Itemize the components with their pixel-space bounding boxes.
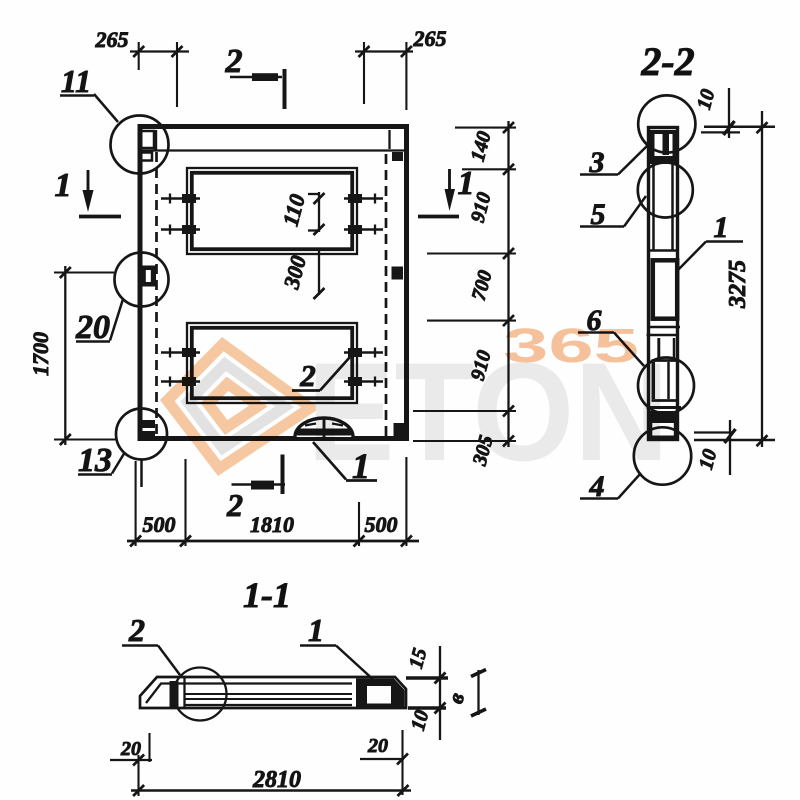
svg-text:15: 15 [405,646,431,671]
anchor loop lower-left-2 [161,377,200,387]
section 2-2 detail circle third [638,358,694,414]
svg-text:10: 10 [693,87,719,112]
watermark logo diamond ring inner orange [201,377,268,435]
section 2-2 top anchor [650,130,678,164]
svg-text:1: 1 [55,167,72,204]
section 1-1 right end block [356,679,405,710]
right chain extension lines [413,128,516,441]
bottom label 500 right [365,512,398,537]
section 2-2 detail circle bottom [634,427,691,484]
svg-text:110: 110 [278,191,310,228]
vent dome on bottom edge [295,418,353,437]
bottom label 1810 [250,512,294,537]
detail circle 11 (top-left corner) [111,116,169,174]
section 1-1 web lines [184,684,352,706]
dimension 20 right (1-1) [360,730,408,795]
svg-text:2: 2 [226,487,243,523]
bottom label 500 left [143,512,176,537]
dimension 10 top (2-2) [693,87,775,138]
dimension 15 (1-1) [405,646,448,740]
dashed line left [155,152,158,436]
dimension 1700 [28,266,116,445]
right chain label 910 upper [467,190,496,225]
panel outline [140,127,407,439]
anchor loop upper-left-1 [161,194,200,204]
svg-text:700: 700 [468,268,497,303]
section marker 1 left [55,167,122,217]
leader label 2 (plan) [292,357,350,393]
section marker 1 right [418,165,475,217]
section 2-2 mid dividers [647,327,681,361]
section 2-2 detail circle top [638,95,695,152]
label 4 [580,470,641,503]
label 1 (section 2-2) [676,211,743,272]
dimension b overall (1-1) [442,670,486,717]
svg-text:2: 2 [225,43,243,80]
anchor loop upper-right-1 [344,194,383,204]
dimension 2810 [131,755,411,796]
svg-text:1700: 1700 [28,332,53,376]
dimension 265 right [355,26,447,110]
dimension 20 left (1-1) [110,733,152,766]
top flange inner line [143,149,405,151]
svg-text:1810: 1810 [250,512,294,537]
section 2-2 lower web lines [647,362,682,408]
svg-text:11: 11 [61,63,91,99]
svg-text:10: 10 [407,708,433,733]
label 5 [580,196,646,231]
bottom-right corner mark [394,423,405,437]
svg-text:2: 2 [128,612,145,648]
section 1-1 left end detail [146,677,185,707]
label 2 (section 1-1) [122,612,180,675]
svg-text:365: 365 [503,320,639,373]
dimension 10 (1-1) [407,703,446,733]
right chain label 700 [468,268,497,303]
anchor loop upper-left-2 [161,225,200,235]
anchor loop upper-right-2 [344,225,383,235]
label 11 [60,63,118,122]
right chain label 910 lower [467,348,496,383]
section 2-2 title [640,39,694,84]
leader label 1 (plan bottom) [313,442,377,486]
svg-text:1-1: 1-1 [243,575,291,615]
svg-text:500: 500 [143,512,176,537]
label 6 [578,304,644,366]
svg-text:2810: 2810 [252,767,301,793]
svg-text:300: 300 [278,253,311,292]
label 13 [78,442,125,479]
right chain label 140 [467,129,496,164]
section marker 2 bottom [226,455,285,524]
opening upper [187,168,357,254]
dimension 3275 [725,111,762,447]
section marker 2 top [225,43,285,109]
svg-text:20: 20 [367,735,388,757]
right edge mid mark [392,267,404,280]
section 2-2 inner web lines upper [650,164,676,251]
section 1-1 title [243,575,291,615]
svg-text:1: 1 [714,211,729,244]
watermark word ETON [307,333,669,490]
label 20 [75,299,123,346]
section 2-2 column outline [649,128,678,440]
svg-text:265: 265 [95,27,129,52]
dashed line right [385,154,388,436]
top-right corner detail [390,130,404,161]
right dimension chain line [503,121,514,447]
svg-text:140: 140 [467,129,496,164]
dimension 110 [278,191,325,235]
opening lower [187,323,357,403]
section 2-2 bottom anchor [648,411,678,441]
section 2-2 detail circle second [638,163,693,218]
label 1 (section 1-1) [300,612,377,683]
dimension 265 left [95,27,190,107]
watermark logo diamond ring outer orange [160,337,320,476]
watermark logo diamond ring middle gray [180,357,294,456]
section 1-1 detail circle [174,668,227,721]
bottom dimension chain [127,536,419,547]
svg-text:1: 1 [308,612,324,648]
svg-text:3275: 3275 [725,260,751,309]
dimension 10 bottom (2-2) [694,420,775,475]
section 2-2 middle insert plate [653,260,677,318]
dimension 300 [278,250,324,299]
section 1-1 outline [140,677,406,708]
detail circle 20 (mid-left) [115,253,169,307]
panel edge stub below circle 13 [140,459,143,487]
svg-text:500: 500 [365,512,398,537]
watermark 365 [503,320,639,373]
svg-text:265: 265 [413,26,447,51]
bottom chain extension lines [136,457,407,546]
anchor loop lower-right-2 [344,377,383,387]
right chain label 305 [468,433,497,469]
svg-text:10: 10 [695,447,721,472]
detail circle 13 (bottom-left corner) [116,409,167,460]
svg-text:2-2: 2-2 [640,39,694,84]
anchor loop lower-right-1 [344,348,383,358]
label 3 [580,146,647,179]
anchor loop lower-left-1 [161,348,200,358]
